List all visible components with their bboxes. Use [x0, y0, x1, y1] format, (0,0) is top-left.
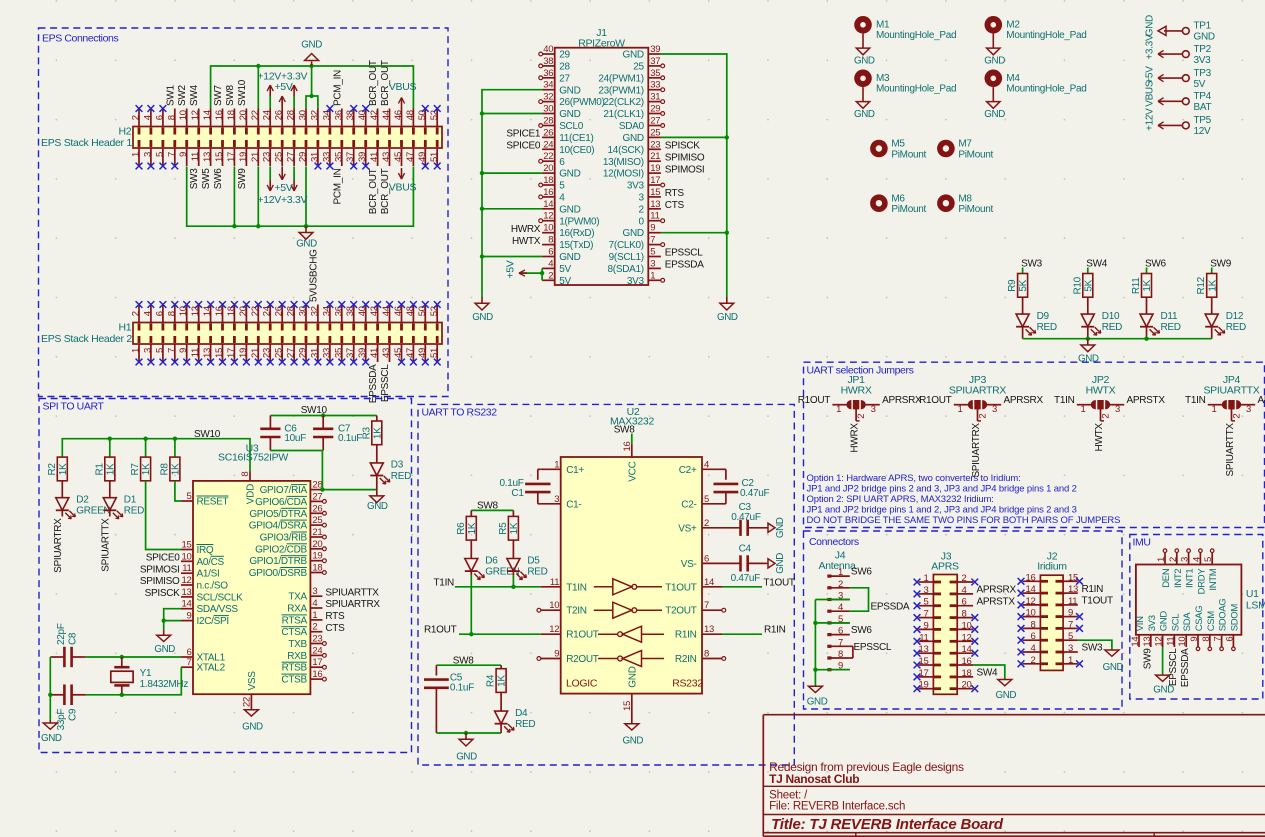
svg-text:8: 8 — [1201, 637, 1212, 642]
svg-text:47: 47 — [405, 348, 416, 358]
svg-text:21(CLK1): 21(CLK1) — [603, 109, 643, 120]
J1 pin 21 (13(MISO)) — [648, 160, 661, 162]
svg-text:CSAG: CSAG — [1194, 606, 1205, 632]
H2 pin 44 — [389, 109, 391, 127]
svg-text:13: 13 — [704, 624, 714, 635]
J4 pin 6 — [827, 633, 831, 636]
svg-text:SW10: SW10 — [301, 405, 328, 416]
no-connect flag — [219, 301, 226, 308]
svg-text:RED: RED — [1102, 322, 1122, 333]
H1 pin 21 — [257, 344, 259, 362]
svg-text:C1+: C1+ — [566, 465, 584, 476]
svg-text:APRSTX: APRSTX — [1127, 395, 1166, 406]
svg-text:IMU: IMU — [1133, 537, 1151, 549]
svg-text:13: 13 — [1142, 637, 1153, 647]
buffer gate — [594, 586, 613, 588]
wire — [661, 232, 727, 234]
no-connect flag — [338, 359, 345, 366]
ground — [808, 686, 822, 692]
J1 pin 16 (4) — [542, 196, 555, 198]
svg-text:EPSSDA: EPSSDA — [871, 602, 910, 613]
EPS Connections section box — [39, 28, 449, 397]
wire — [270, 415, 376, 417]
wire — [1146, 268, 1148, 274]
H2 pin 39 — [365, 148, 367, 166]
wire — [1078, 640, 1112, 650]
svg-text:11: 11 — [1165, 637, 1176, 646]
svg-text:0.1uF: 0.1uF — [450, 682, 474, 693]
wire — [815, 599, 849, 601]
svg-text:SW9: SW9 — [1210, 259, 1232, 270]
svg-text:3: 3 — [924, 585, 929, 596]
svg-text:9: 9 — [178, 348, 189, 353]
U2 pin 6 (VS-) — [702, 562, 722, 564]
svg-text:HWRX: HWRX — [511, 224, 541, 235]
svg-text:33: 33 — [650, 80, 660, 91]
H1 pin 48 — [412, 305, 414, 323]
svg-text:T1OUT: T1OUT — [665, 582, 696, 593]
svg-text:12: 12 — [543, 211, 553, 222]
svg-text:SCL: SCL — [1170, 614, 1181, 632]
H2 pin 52 — [436, 109, 438, 127]
svg-text:CSM: CSM — [1206, 611, 1217, 632]
svg-text:7: 7 — [166, 152, 177, 157]
svg-text:9(SCL1): 9(SCL1) — [609, 252, 644, 263]
U1 pin 7 (SDOAG) — [1221, 635, 1223, 647]
wire — [163, 621, 165, 631]
svg-text:24: 24 — [543, 139, 553, 150]
svg-text:SW9: SW9 — [1143, 648, 1154, 670]
svg-text:EPS Stack Header 2: EPS Stack Header 2 — [41, 333, 132, 345]
svg-text:3V3: 3V3 — [627, 181, 645, 192]
U1 pin 8 (CSM) — [1209, 635, 1211, 647]
H1 pin 43 — [389, 344, 391, 362]
no-connect flag — [422, 163, 429, 170]
H2 pin 11 — [198, 148, 200, 166]
ground — [49, 720, 51, 723]
J3 pin 10 — [957, 628, 973, 630]
buffer gate — [598, 633, 618, 635]
J3 pin 20 — [957, 688, 973, 690]
svg-text:APRSRX: APRSRX — [1004, 395, 1044, 406]
svg-text:SW5: SW5 — [201, 168, 212, 190]
U3 pin 26 (GPIO5/DTRA) — [310, 512, 322, 514]
J1 pin 24 (10(CE0)) — [542, 148, 555, 150]
J3 pin 15 — [919, 664, 934, 666]
no-connect flag — [1076, 660, 1083, 667]
svg-text:GND: GND — [154, 644, 175, 655]
svg-text:TP3: TP3 — [1194, 68, 1212, 79]
svg-text:RXA: RXA — [287, 604, 307, 615]
svg-text:4: 4 — [704, 459, 709, 470]
no-connect flag — [327, 301, 334, 308]
svg-text:M6: M6 — [891, 193, 905, 204]
U3 pin 6 (XTAL1) — [181, 656, 193, 658]
J1 pin 1 (3V3) — [648, 279, 661, 281]
svg-text:51: 51 — [429, 152, 440, 162]
J1 pin 7 (7(CLK0)) — [648, 244, 661, 246]
svg-text:U1: U1 — [1246, 588, 1259, 600]
svg-text:23: 23 — [650, 139, 660, 150]
U2 pin 14 (T1OUT) — [702, 586, 722, 588]
svg-text:GND: GND — [301, 40, 322, 51]
JP3 pin 1 — [954, 404, 968, 406]
no-connect flag — [1018, 625, 1025, 632]
svg-text:18: 18 — [312, 563, 322, 574]
svg-text:SW9: SW9 — [237, 168, 248, 190]
svg-text:5: 5 — [187, 491, 192, 502]
no-connect flag — [255, 359, 262, 366]
J1 pin 17 (3V3) — [648, 184, 661, 186]
ground — [625, 724, 639, 730]
J2 pin 10 — [1023, 616, 1041, 618]
svg-text:10uF: 10uF — [284, 433, 306, 444]
svg-text:VBUS: VBUS — [389, 81, 417, 93]
svg-text:21: 21 — [250, 152, 261, 162]
svg-text:5: 5 — [154, 348, 165, 353]
svg-text:SPI TO UART: SPI TO UART — [43, 401, 105, 413]
J1 pin 35 (24(PWM1)) — [648, 77, 661, 79]
wire — [482, 172, 542, 174]
svg-text:R1: R1 — [94, 463, 105, 476]
svg-text:18: 18 — [226, 110, 237, 120]
no-connect flag — [1018, 578, 1025, 585]
svg-text:5: 5 — [559, 181, 565, 192]
svg-text:T1OUT: T1OUT — [1082, 596, 1113, 607]
svg-text:GND: GND — [775, 553, 786, 574]
svg-text:EPS Stack Header 1: EPS Stack Header 1 — [41, 137, 132, 149]
U3 pin 4 (RXA) — [310, 607, 322, 609]
wire — [815, 669, 849, 671]
svg-text:3: 3 — [1115, 404, 1120, 415]
H1 pin 7 — [174, 344, 176, 362]
svg-text:SW6: SW6 — [851, 625, 873, 636]
svg-text:31: 31 — [309, 348, 320, 358]
svg-text:19: 19 — [312, 551, 322, 562]
svg-text:Option 2: SPI UART APRS, MAX32: Option 2: SPI UART APRS, MAX3232 Iridium… — [807, 494, 994, 505]
J1 pin 6 (GND) — [542, 256, 555, 258]
svg-text:25: 25 — [633, 62, 644, 73]
svg-text:16: 16 — [622, 441, 633, 451]
H2 pin 51 — [436, 148, 438, 166]
U3 pin 28 (GPIO7/RIA) — [310, 489, 322, 491]
no-connect flag — [243, 359, 250, 366]
svg-text:38: 38 — [543, 56, 553, 67]
junction — [232, 224, 236, 228]
no-connect flag — [914, 674, 921, 681]
no-connect flag — [374, 301, 381, 308]
svg-text:A1/SI: A1/SI — [197, 569, 220, 580]
wire — [257, 66, 259, 109]
capacitor C9 — [63, 685, 66, 706]
svg-text:TJ Nanosat Club: TJ Nanosat Club — [769, 772, 859, 786]
J2 pin 12 — [1023, 604, 1041, 606]
no-connect flag — [303, 301, 310, 308]
svg-text:HWTX: HWTX — [1094, 423, 1105, 452]
H2 pin 35 — [341, 148, 343, 166]
U3 pin 8 (VDD) — [249, 472, 251, 481]
IMU section box — [1130, 535, 1263, 700]
H2 pin 5 — [162, 148, 164, 166]
U1 pin 1 (DEN) — [1164, 553, 1166, 565]
no-connect flag — [422, 359, 429, 366]
H1 pin 27 — [293, 344, 295, 362]
capacitor C3 — [722, 527, 740, 529]
capacitor C1 — [538, 468, 541, 470]
ground — [856, 48, 869, 55]
wire — [1211, 268, 1213, 274]
H1 pin 34 — [329, 305, 331, 323]
J3 pin 5 — [919, 605, 934, 607]
resistor R11 — [1142, 274, 1152, 298]
svg-text:TXA: TXA — [288, 592, 307, 603]
svg-text:6: 6 — [559, 157, 565, 168]
svg-text:11: 11 — [550, 577, 559, 588]
svg-text:2: 2 — [704, 518, 709, 529]
J3 pin 17 — [919, 676, 934, 678]
svg-text:25: 25 — [312, 515, 322, 526]
svg-text:HWRX: HWRX — [841, 385, 872, 397]
svg-text:Connectors: Connectors — [809, 536, 859, 548]
svg-text:4: 4 — [548, 258, 553, 269]
svg-text:File: REVERB Interface.sch: File: REVERB Interface.sch — [769, 801, 905, 813]
no-connect flag — [914, 579, 921, 586]
svg-text:VCC: VCC — [628, 461, 639, 481]
no-connect flag — [1018, 660, 1025, 667]
ground — [465, 733, 467, 739]
svg-text:0: 0 — [639, 216, 645, 227]
no-connect flag — [1018, 613, 1025, 620]
svg-text:27: 27 — [312, 491, 322, 502]
J3 pin 12 — [957, 640, 973, 642]
wire — [311, 66, 313, 96]
UART selection Jumpers section box — [804, 362, 1265, 527]
H2 pin 12 — [198, 109, 200, 127]
svg-text:5V: 5V — [1194, 79, 1206, 90]
connector H1 body — [133, 323, 442, 345]
svg-text:14(SCK): 14(SCK) — [608, 145, 644, 156]
svg-text:PiMount: PiMount — [958, 150, 993, 161]
JP2 pin 2 — [1100, 409, 1102, 421]
svg-text:MountingHole_Pad: MountingHole_Pad — [876, 83, 956, 94]
svg-text:12: 12 — [190, 110, 201, 120]
svg-text:13: 13 — [650, 199, 660, 210]
no-connect flag — [410, 359, 417, 366]
svg-text:H1: H1 — [119, 321, 132, 333]
H1 pin 45 — [401, 344, 403, 362]
svg-text:9: 9 — [650, 223, 655, 234]
wire — [482, 208, 542, 210]
wire — [471, 509, 513, 511]
svg-text:GND: GND — [622, 228, 643, 239]
resistor R4 — [496, 669, 506, 693]
svg-text:7: 7 — [187, 657, 192, 668]
svg-text:RED: RED — [1161, 322, 1181, 333]
U2 pin 12 (R1OUT) — [541, 633, 561, 635]
svg-text:37: 37 — [345, 348, 356, 358]
Connectors section box — [804, 531, 1123, 709]
svg-text:10: 10 — [182, 551, 192, 562]
junction — [480, 111, 484, 115]
svg-text:SPIUARTRX: SPIUARTRX — [325, 599, 380, 610]
svg-text:1: 1 — [924, 573, 929, 584]
svg-text:48: 48 — [405, 110, 416, 120]
no-connect flag — [914, 650, 921, 657]
H2 pin 19 — [245, 148, 247, 166]
J2 pin 11 — [1063, 604, 1078, 606]
connector H2 body — [133, 127, 442, 149]
H2 pin 6 — [162, 109, 164, 127]
U2 pin 15 (GND) — [631, 694, 633, 724]
svg-text:12: 12 — [1026, 596, 1036, 607]
U3 pin 13 (SCL/SCLK) — [181, 596, 193, 598]
H1 pin 51 — [436, 344, 438, 362]
no-connect flag — [971, 685, 978, 692]
no-connect flag — [914, 638, 921, 645]
svg-text:APRSRX: APRSRX — [977, 585, 1017, 596]
svg-text:SPIUARTRX: SPIUARTRX — [949, 385, 1007, 397]
svg-text:SPIUARTTX: SPIUARTTX — [1225, 423, 1236, 477]
H1 pin 12 — [198, 305, 200, 323]
no-connect flag — [398, 359, 405, 366]
svg-text:VS-: VS- — [681, 559, 697, 570]
H1 pin 30 — [305, 305, 307, 323]
svg-text:43: 43 — [381, 152, 392, 162]
no-connect flag — [136, 359, 143, 366]
svg-text:LOGIC: LOGIC — [566, 678, 598, 690]
U1 pin 9 (CSAG) — [1197, 635, 1199, 647]
svg-text:EPSSCL: EPSSCL — [854, 642, 892, 653]
wire — [174, 439, 176, 457]
U1 pin 4 (DRDY) — [1199, 553, 1201, 565]
svg-text:5VUSBCHG: 5VUSBCHG — [308, 249, 319, 302]
svg-text:0.47uF: 0.47uF — [740, 488, 770, 499]
svg-text:33pF: 33pF — [56, 709, 67, 731]
svg-text:6: 6 — [704, 553, 709, 564]
no-connect flag — [136, 163, 143, 170]
no-connect flag — [410, 301, 417, 308]
H2 pin 36 — [341, 109, 343, 127]
svg-text:GND: GND — [1144, 15, 1155, 36]
svg-text:SW8: SW8 — [225, 84, 236, 106]
test point TP1 — [1182, 28, 1189, 35]
svg-text:17: 17 — [650, 175, 660, 186]
power +5V — [281, 96, 283, 109]
J3 pin 19 — [919, 688, 934, 690]
J1 pin 19 (12(MOSI)) — [648, 172, 661, 174]
no-connect flag — [362, 163, 369, 170]
svg-text:1: 1 — [312, 610, 317, 621]
svg-text:2: 2 — [1168, 557, 1179, 562]
H1 pin 52 — [436, 305, 438, 323]
svg-text:8: 8 — [1031, 619, 1036, 630]
svg-text:0.1uF: 0.1uF — [338, 433, 362, 444]
H1 pin 13 — [210, 344, 212, 362]
J4 pin 2 — [827, 586, 831, 589]
svg-text:GND: GND — [628, 666, 639, 687]
resistor R3 — [376, 416, 378, 422]
svg-text:1: 1 — [650, 270, 655, 281]
svg-text:8(SDA1): 8(SDA1) — [608, 264, 644, 275]
svg-text:1: 1 — [1212, 404, 1217, 415]
svg-text:16: 16 — [214, 110, 225, 120]
no-connect flag — [350, 163, 357, 170]
svg-text:21: 21 — [312, 527, 322, 538]
svg-text:R1OUT: R1OUT — [798, 395, 831, 406]
svg-text:0.47uF: 0.47uF — [731, 573, 761, 584]
svg-text:11: 11 — [190, 348, 201, 357]
svg-text:1: 1 — [131, 152, 142, 157]
svg-text:22: 22 — [250, 110, 261, 120]
wire — [722, 633, 762, 635]
svg-text:GND: GND — [41, 733, 62, 744]
mounting hole M8 — [937, 194, 955, 212]
svg-text:3: 3 — [1068, 643, 1073, 654]
svg-text:SPISCK: SPISCK — [665, 141, 701, 152]
svg-text:R2: R2 — [47, 463, 58, 476]
wire — [815, 622, 849, 624]
svg-text:5: 5 — [154, 152, 165, 157]
svg-text:26(PWM0): 26(PWM0) — [559, 97, 604, 108]
H2 pin 50 — [424, 109, 426, 127]
svg-text:IRQ: IRQ — [197, 545, 214, 556]
J1 pin 22 (6) — [542, 160, 555, 162]
junction — [256, 224, 260, 228]
svg-text:35: 35 — [333, 152, 344, 162]
test point TP5 — [1182, 122, 1189, 129]
svg-text:19: 19 — [238, 152, 249, 162]
J3 pin 11 — [919, 640, 934, 642]
svg-text:GPIO3/RIB: GPIO3/RIB — [260, 533, 308, 544]
svg-text:10: 10 — [1026, 608, 1036, 619]
svg-text:8: 8 — [166, 115, 177, 120]
H1 pin 17 — [233, 344, 235, 362]
svg-text:SW7: SW7 — [213, 84, 224, 106]
svg-text:GND: GND — [854, 109, 875, 120]
svg-text:CTS: CTS — [665, 200, 685, 211]
ground — [764, 562, 768, 564]
svg-text:27: 27 — [650, 116, 660, 127]
test point TP4 — [1182, 98, 1189, 105]
svg-text:49: 49 — [417, 348, 428, 358]
svg-text:+3.3V: +3.3V — [1144, 34, 1155, 60]
svg-text:33: 33 — [321, 348, 332, 358]
svg-text:7: 7 — [1213, 637, 1224, 642]
buffer gate — [598, 658, 618, 660]
svg-text:SCL/SCLK: SCL/SCLK — [197, 592, 244, 603]
svg-text:10: 10 — [543, 223, 553, 234]
svg-text:16: 16 — [312, 669, 322, 680]
svg-text:2: 2 — [962, 573, 967, 584]
power — [281, 96, 283, 107]
no-connect flag — [914, 685, 921, 692]
svg-text:GND: GND — [622, 133, 643, 144]
power — [269, 85, 271, 96]
U1 pin 3 (INT1) — [1188, 553, 1190, 565]
no-connect flag — [148, 301, 155, 308]
svg-text:25: 25 — [274, 152, 285, 162]
no-connect flag — [160, 359, 167, 366]
svg-text:R3: R3 — [361, 426, 372, 439]
JP3 pin 2 — [977, 409, 979, 421]
J1 pin 3 (8(SDA1)) — [648, 267, 661, 269]
svg-text:C4: C4 — [739, 544, 752, 555]
J1 pin 27 (SDA0) — [648, 125, 661, 127]
svg-text:30: 30 — [298, 110, 309, 120]
svg-text:16(RxD): 16(RxD) — [559, 228, 594, 239]
no-connect flag — [219, 359, 226, 366]
svg-text:M1: M1 — [876, 19, 890, 30]
